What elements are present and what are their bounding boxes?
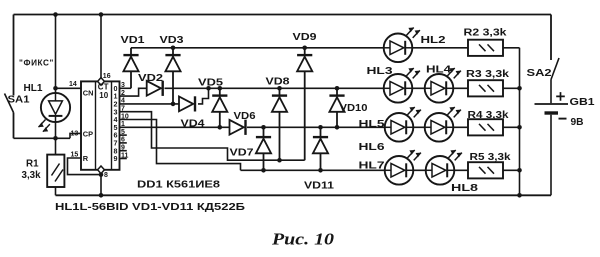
- svg-text:VD2: VD2: [138, 73, 164, 84]
- svg-text:VD8: VD8: [266, 76, 291, 87]
- node: junction VD8 anode / staircase: [277, 158, 282, 163]
- svg-text:VD6: VD6: [234, 111, 256, 122]
- resistor R2: [468, 40, 503, 56]
- svg-text:DD1 К561ИЕ8: DD1 К561ИЕ8: [137, 179, 220, 190]
- svg-text:9: 9: [121, 145, 125, 152]
- node: junctions on right bus: [517, 86, 522, 91]
- node: junction VD10 descender / row3 bus: [335, 125, 340, 130]
- node: junction VD9 cathode riser / row1 bus: [302, 46, 307, 51]
- diode VD9: [304, 48, 306, 55]
- node: junction VD5 stub / row2 bus: [218, 86, 223, 91]
- svg-text:"ФИКС": "ФИКС": [19, 59, 54, 68]
- svg-text:VD3: VD3: [160, 35, 185, 46]
- LED HL2: [384, 34, 413, 63]
- svg-text:13: 13: [71, 131, 79, 138]
- battery GB1: [535, 103, 569, 105]
- wire: bottom return bus: [56, 194, 552, 196]
- node: junction top bus / HL1 column: [53, 12, 58, 17]
- svg-text:HL7: HL7: [359, 160, 385, 171]
- diode VD5: [219, 88, 221, 95]
- battery plus sign: [556, 92, 565, 101]
- svg-text:SA1: SA1: [8, 95, 30, 106]
- svg-text:11: 11: [121, 152, 129, 159]
- wire: row3 HL5-HL6-R4-bus: [413, 126, 519, 128]
- wire: output 5 (pin 1) to VD5/VD6 anodes (row3 feed): [120, 126, 230, 128]
- node: junction VD7 anode / row4 bus: [261, 168, 266, 173]
- wire: pin 8 ground column: [100, 174, 102, 196]
- pin 16 terminal: [98, 78, 105, 86]
- node: junction VD10 stub / row2 bus: [335, 86, 340, 91]
- wire: pin 16 supply column: [100, 15, 102, 79]
- svg-text:HL5: HL5: [359, 119, 385, 130]
- wire: row4 bus (HL7/HL8 feed): [241, 169, 385, 171]
- diode VD1: [130, 48, 132, 55]
- svg-text:R3 3,3k: R3 3,3k: [466, 69, 510, 80]
- svg-text:CN: CN: [83, 88, 94, 97]
- svg-text:Рис. 10: Рис. 10: [271, 230, 335, 249]
- LED HL3: [384, 74, 413, 103]
- wire: HL1 cathode to node: [55, 122, 57, 155]
- diode VD10: [336, 88, 338, 95]
- svg-text:9: 9: [114, 154, 118, 163]
- wire: output 4 (pin 10) staircase to row4 bus: [120, 120, 241, 171]
- svg-text:HL8: HL8: [451, 183, 478, 194]
- wire: output 0 (pin 3) to VD1: [120, 87, 132, 89]
- node: junction VD4 jog / row2 bus: [206, 86, 211, 91]
- node: junction VD7 stub / row3 bus: [261, 125, 266, 130]
- diode VD11: [320, 127, 322, 137]
- svg-text:VD9: VD9: [293, 32, 318, 43]
- svg-text:8: 8: [104, 172, 108, 179]
- node: junction HL1 column / CN wire: [53, 86, 58, 91]
- svg-text:R: R: [83, 154, 89, 163]
- svg-text:5: 5: [121, 129, 125, 136]
- svg-text:HL1: HL1: [24, 83, 43, 94]
- switch SA2: [550, 15, 552, 61]
- wire: output 2 (pin 4) to VD3/VD4 anodes: [120, 103, 180, 105]
- svg-text:HL6: HL6: [359, 142, 385, 153]
- wire: R (pin 15) to ground column: [68, 158, 102, 175]
- switch SA1: [5, 94, 14, 113]
- LED HL4: [425, 74, 454, 103]
- svg-text:14: 14: [69, 81, 77, 88]
- lamp HL1 (LED, cathode down): [41, 93, 70, 122]
- svg-text:6: 6: [121, 137, 125, 144]
- svg-text:9В: 9В: [571, 117, 584, 128]
- svg-text:GB1: GB1: [570, 97, 595, 108]
- wire: row3 bus (HL5/HL6 feed): [247, 126, 385, 128]
- resistor R3: [468, 80, 503, 96]
- svg-text:VD1: VD1: [121, 35, 146, 46]
- svg-text:2: 2: [121, 90, 125, 97]
- svg-text:VD5: VD5: [198, 77, 224, 88]
- node: junction VD5 descender / row3 feed: [218, 125, 223, 130]
- svg-text:15: 15: [71, 152, 79, 159]
- svg-text:VD7: VD7: [230, 147, 255, 158]
- svg-text:VD10: VD10: [340, 103, 368, 114]
- node: junction VD3 anode: [171, 102, 176, 107]
- svg-text:HL2: HL2: [421, 35, 446, 46]
- resistor R1: [47, 155, 64, 187]
- wire: R1 to bottom bus: [55, 187, 57, 195]
- wire: row2 HL3-HL4-R3-bus: [412, 87, 519, 89]
- LED HL7: [385, 156, 414, 185]
- svg-text:HL1L-56BID VD1-VD11 КД522Б: HL1L-56BID VD1-VD11 КД522Б: [55, 202, 246, 213]
- node: junction VD3 cathode riser / row1 bus: [171, 46, 176, 51]
- svg-text:1: 1: [121, 121, 125, 128]
- wire: top supply bus: [14, 14, 552, 16]
- node: junction VD11 stub / row3 bus: [318, 125, 323, 130]
- wire: output 1 (pin 2) to VD2 anode: [120, 88, 147, 96]
- svg-text:VD4: VD4: [181, 119, 206, 130]
- wire: row4 HL7-HL8-R5-bus: [413, 169, 519, 171]
- node: junction SA1 wire / HL1-R1: [53, 136, 58, 141]
- diode VD4: [179, 97, 193, 112]
- wire: output 3 (pin 7) staircase to VD8/VD9 anodes: [120, 112, 305, 161]
- wire: pin 14 (CN) to HL1 column: [56, 87, 82, 89]
- diode VD6: [230, 120, 244, 135]
- svg-text:4: 4: [121, 98, 125, 105]
- resistor R4: [468, 119, 503, 135]
- wire: left branch to SA1: [13, 15, 15, 96]
- svg-text:3,3k: 3,3k: [22, 170, 42, 181]
- LED HL8: [426, 156, 455, 185]
- LED HL6: [425, 113, 454, 142]
- svg-text:HL3: HL3: [367, 66, 393, 77]
- wire: right collector bus: [519, 48, 521, 196]
- node: junction pin15 wire / ground column: [99, 172, 104, 177]
- svg-text:10: 10: [121, 113, 129, 120]
- wire: row1 HL2 to R2 to right bus: [412, 47, 519, 49]
- wire: HL1 anode column from top bus: [55, 15, 57, 94]
- LED HL5: [385, 113, 414, 142]
- svg-text:7: 7: [121, 106, 125, 113]
- wire: CP (pin 13) connection: [70, 133, 81, 138]
- node: junction VD11 anode / row4 bus: [318, 168, 323, 173]
- pin 8 terminal: [98, 166, 105, 174]
- diode VD2: [147, 81, 161, 96]
- wire: unused output stubs pins 5,6,9,11: [120, 134, 127, 136]
- svg-text:R2 3,3k: R2 3,3k: [464, 28, 508, 39]
- wire: row2 bus (HL3/HL4 feed): [165, 87, 384, 89]
- svg-text:3: 3: [121, 82, 125, 89]
- svg-text:R1: R1: [26, 159, 39, 170]
- resistor R5: [468, 162, 503, 178]
- battery minus sign: [559, 118, 567, 120]
- diode VD7: [263, 127, 265, 137]
- wire: SA1 to HL1/R1 node: [14, 137, 71, 139]
- svg-text:CP: CP: [83, 130, 93, 139]
- svg-text:R4 3,3k: R4 3,3k: [468, 110, 510, 121]
- svg-text:R5 3,3k: R5 3,3k: [470, 152, 512, 163]
- svg-text:VD11: VD11: [304, 181, 335, 192]
- diode VD3: [172, 48, 174, 55]
- IC DD1 K561IE8 counter: [81, 81, 120, 169]
- wire: VD4 cathode jog up to row2 bus: [198, 88, 209, 104]
- node: junction top bus / pin16 column: [99, 12, 104, 17]
- svg-text:16: 16: [103, 73, 111, 80]
- diode VD8: [279, 88, 281, 95]
- svg-text:10: 10: [99, 91, 108, 100]
- svg-text:HL4: HL4: [426, 65, 451, 76]
- wire: row1 bus (HL2 feed): [131, 47, 384, 49]
- node: junction VD8 stub / row2 bus: [277, 86, 282, 91]
- svg-text:SA2: SA2: [527, 68, 552, 79]
- node: junction ground column / bottom bus: [99, 193, 104, 198]
